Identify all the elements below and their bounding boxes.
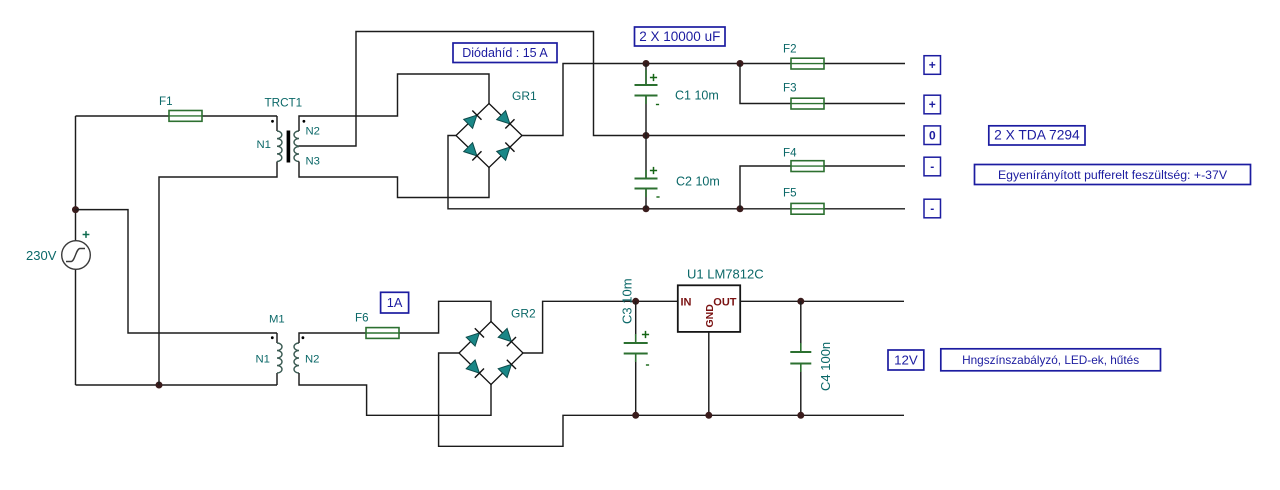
svg-text:F1: F1 (159, 95, 173, 108)
wire F3 branch (740, 64, 905, 104)
node C1 top junction (643, 60, 650, 67)
minus mark C2 (656, 196, 659, 198)
node GND junction (705, 412, 712, 419)
capacitor C2 leads (645, 170, 647, 197)
svg-text:C4 100n: C4 100n (818, 342, 833, 391)
svg-text:1A: 1A (387, 295, 403, 310)
wire center tap to 0 rail (299, 32, 646, 147)
note box 12V (888, 350, 924, 370)
wire F4 branch (740, 166, 905, 209)
node C4 top junction (797, 298, 804, 305)
svg-text:F3: F3 (783, 82, 797, 95)
wire U1 OUT rail (740, 300, 904, 302)
svg-text:F2: F2 (783, 43, 797, 56)
transformer TRCT1 winding N3 (294, 147, 299, 162)
voltage source V1 230V (62, 241, 91, 270)
svg-text:GND: GND (704, 304, 716, 328)
svg-text:Egyenírányított pufferelt fesz: Egyenírányított pufferelt feszültség: +-… (998, 168, 1228, 182)
fuse F2 (791, 58, 824, 69)
svg-text:N1: N1 (257, 139, 271, 151)
wire M1 N1 leads (276, 333, 278, 385)
note box load description (941, 349, 1161, 371)
wire F1 rail to TRCT1 primary (76, 115, 278, 117)
note box buffered voltage (975, 165, 1251, 185)
minus mark C3 (646, 364, 649, 366)
svg-text:F5: F5 (783, 187, 797, 200)
wire plus rail (646, 63, 905, 65)
node F2-F3 branch junction (737, 60, 744, 67)
node C3 top junction (632, 298, 639, 305)
fuse F6 (366, 328, 399, 339)
svg-text:OUT: OUT (713, 296, 737, 308)
plus mark C3 (642, 331, 649, 338)
wire GR1 right to plus node (522, 64, 646, 136)
polarity dot M1 N2 (302, 336, 305, 339)
svg-text:Hngszínszabályzó, LED-ek, hűté: Hngszínszabályzó, LED-ek, hűtés (962, 353, 1139, 367)
svg-text:C3 10m: C3 10m (620, 278, 635, 324)
fuse F3 (791, 98, 824, 109)
svg-text:N2: N2 (306, 126, 320, 138)
plus mark C2 (650, 167, 657, 174)
capacitor C4 leads (800, 343, 802, 372)
transformer M1 winding N2 (294, 343, 299, 373)
polarity dot N1 (271, 120, 274, 123)
capacitor C3 leads (635, 334, 637, 362)
regulator U1 box (678, 285, 740, 332)
terminal box plus 1 (924, 56, 941, 75)
note box 2x10000uF (635, 27, 726, 46)
wire from F1 corner down to source and bottom rail (75, 116, 77, 385)
svg-text:C1 10m: C1 10m (675, 89, 719, 103)
node F4-F5 branch junction (737, 205, 744, 212)
svg-text:12V: 12V (894, 352, 918, 367)
fuse F4 (791, 161, 824, 172)
wire M1 N2 bottom to GR2 bottom (299, 373, 491, 415)
node B junction bottom rail (156, 382, 163, 389)
svg-text:M1: M1 (269, 314, 285, 326)
wire C1 vertical (645, 64, 647, 136)
svg-text:N2: N2 (305, 354, 319, 366)
wire C2 vertical (645, 136, 647, 209)
wire U1 GND (708, 332, 710, 415)
node C2 bottom junction (643, 205, 650, 212)
capacitor C2 plates (635, 178, 658, 180)
svg-text:C2 10m: C2 10m (676, 175, 720, 189)
svg-text:2 X TDA 7294: 2 X TDA 7294 (994, 128, 1080, 143)
wire GR1 left to minus rail (448, 136, 646, 209)
terminal box zero (924, 126, 941, 145)
capacitor C4 plates (790, 351, 811, 353)
svg-text:-: - (930, 202, 934, 216)
polarity dot M1 N1 (271, 336, 274, 339)
plus mark C1 (650, 74, 657, 81)
wire N2 top to GR1 top (299, 74, 489, 131)
note box 1A (381, 292, 409, 313)
wire C3 (635, 301, 637, 415)
note box Diodahid 15A (453, 43, 557, 63)
transformer TRCT1 core (287, 131, 291, 163)
wire minus rail (646, 208, 905, 210)
svg-text:-: - (930, 160, 934, 174)
svg-text:N3: N3 (306, 156, 320, 168)
polarity dot N2 (303, 120, 306, 123)
bridge rectifier GR2 (459, 322, 523, 385)
node C1-C2 mid junction (643, 132, 650, 139)
node A junction at source top branch (72, 206, 79, 213)
svg-text:230V: 230V (26, 248, 57, 263)
svg-text:+: + (929, 98, 936, 112)
svg-text:IN: IN (681, 296, 692, 308)
wire 0 rail (646, 135, 905, 137)
terminal box plus 2 (924, 95, 941, 114)
wire GR2 right to U1 IN (523, 301, 678, 353)
svg-text:GR2: GR2 (511, 307, 536, 321)
svg-text:Diódahíd : 15 A: Diódahíd : 15 A (462, 46, 548, 60)
capacitor C1 leads (645, 70, 647, 104)
svg-text:TRCT1: TRCT1 (265, 97, 303, 110)
transformer TRCT1 winding N2 (294, 131, 299, 146)
terminal box minus 1 (924, 157, 941, 176)
fuse F5 (791, 203, 824, 214)
svg-text:GR1: GR1 (512, 89, 537, 103)
note box 2xTDA7294 (989, 126, 1085, 145)
transformer TRCT1 winding N1 (277, 131, 282, 162)
node C4 bottom junction (797, 412, 804, 419)
svg-text:2 X 10000 uF: 2 X 10000 uF (639, 29, 720, 44)
wire TRCT1 N1 leads (159, 116, 277, 385)
svg-text:F4: F4 (783, 147, 797, 160)
capacitor C3 plates (624, 342, 648, 344)
svg-text:0: 0 (929, 128, 936, 142)
wire GR2 left to lower ground rail (439, 353, 904, 446)
node C3 bottom junction (632, 412, 639, 419)
wire branch to M1 primary (76, 210, 278, 333)
svg-text:F6: F6 (355, 312, 369, 325)
fuse F1 (169, 111, 202, 122)
plus mark of source (83, 231, 90, 238)
svg-text:+: + (929, 58, 936, 72)
wire M1 N2 top through F6 to GR2 top (299, 301, 491, 343)
svg-text:N1: N1 (256, 354, 270, 366)
wire C4 (800, 301, 802, 415)
minus mark C1 (656, 104, 659, 106)
wire N3 bottom to GR1 bottom (299, 162, 489, 198)
svg-text:U1 LM7812C: U1 LM7812C (687, 267, 764, 282)
capacitor C1 plates (635, 84, 658, 86)
terminal box minus 2 (924, 199, 941, 218)
transformer M1 winding N1 (277, 343, 282, 373)
bridge rectifier GR1 (456, 104, 522, 168)
wire bottom rail 230V loop (76, 384, 278, 386)
